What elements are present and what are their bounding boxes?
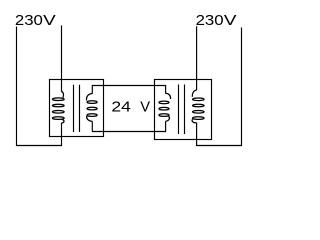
svg-text:230: 230 [196, 12, 224, 29]
svg-text:24: 24 [111, 99, 130, 116]
svg-text:V: V [140, 99, 150, 116]
svg-text:V: V [43, 12, 56, 29]
svg-text:V: V [224, 12, 237, 29]
svg-text:230: 230 [15, 12, 43, 29]
